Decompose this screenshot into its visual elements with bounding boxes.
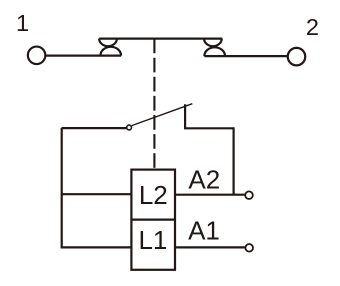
mechanical link dashed line — [153, 39, 155, 170]
switch S1 blade — [132, 104, 193, 126]
wire terminal1 to contact K1 — [45, 54, 121, 56]
wire coil to terminal A1 — [175, 246, 246, 248]
coil box divider — [131, 219, 175, 221]
terminal 1 circle — [28, 47, 46, 65]
wire rail to switch pivot — [62, 127, 127, 129]
terminal A2 circle — [245, 191, 253, 199]
terminal A1 circle — [245, 244, 253, 252]
contact K1 lower arc — [100, 47, 121, 56]
svg-text:1: 1 — [16, 10, 29, 36]
left rail — [61, 128, 63, 249]
svg-text:L2: L2 — [139, 180, 168, 210]
coil box — [131, 170, 175, 270]
contact K1 upper arc — [99, 39, 117, 47]
terminal 2 circle — [288, 48, 306, 66]
svg-text:L1: L1 — [138, 225, 167, 255]
wire contact K2 to terminal2 — [204, 55, 287, 57]
switch S1 pivot circle — [127, 125, 132, 130]
wire coil to terminal A2 — [175, 194, 246, 196]
contact K2 lower arc — [204, 47, 225, 56]
svg-text:A2: A2 — [188, 165, 220, 195]
contact K2 upper arc — [204, 39, 222, 47]
wire rail to coil L2 — [62, 193, 132, 195]
svg-text:2: 2 — [306, 14, 319, 40]
wire top bridge — [99, 37, 222, 39]
wire rail to coil L1 — [62, 246, 132, 248]
svg-text:A1: A1 — [188, 216, 220, 246]
switch S1 fixed post and wire to A2 — [185, 104, 234, 195]
